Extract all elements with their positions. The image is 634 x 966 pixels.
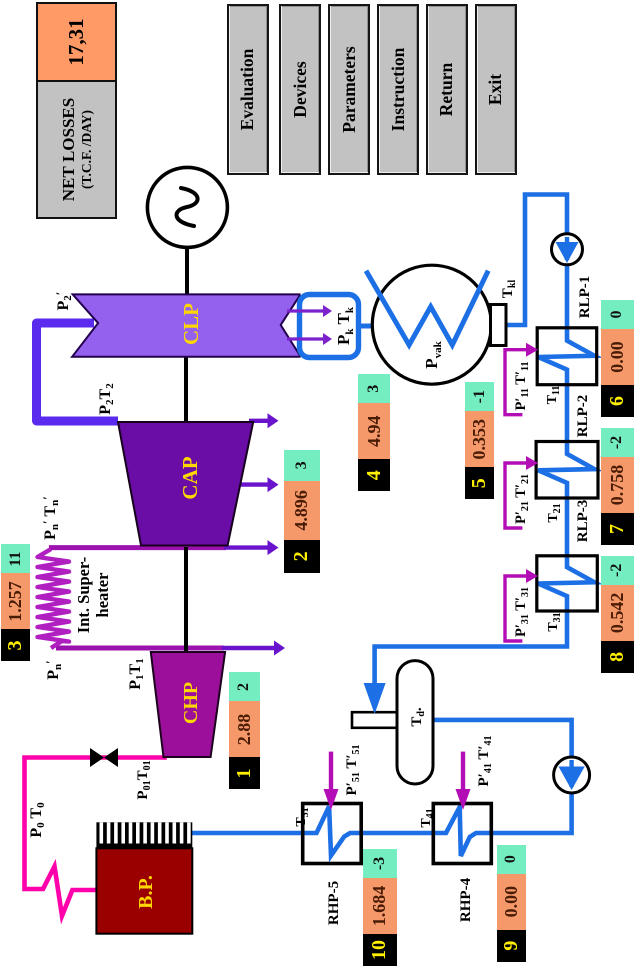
svg-text:P2′: P2′: [53, 292, 74, 311]
heater RLP-2: [536, 442, 598, 499]
svg-text:P2T2: P2T2: [97, 383, 116, 415]
svg-text:P′21 T′21: P′21 T′21: [513, 474, 531, 524]
svg-text:CLP: CLP: [179, 303, 203, 345]
turbine CLP (double-flow): [72, 294, 300, 356]
svg-text:RLP-1: RLP-1: [577, 276, 593, 319]
svg-text:Pn′: Pn′: [43, 660, 64, 680]
svg-text:P′11 T′11: P′11 T′11: [513, 362, 531, 411]
svg-text:Int. Super-: Int. Super-: [74, 557, 93, 633]
boiler B.P.: [96, 848, 192, 933]
svg-text:heater: heater: [93, 573, 112, 618]
extraction arrow 4 below CHP exit (reheat line): [222, 646, 276, 650]
heater RLP-1: [537, 328, 597, 385]
svg-text:T31: T31: [546, 612, 563, 631]
exhaust arrow left: [287, 337, 325, 340]
svg-text:P0 T0: P0 T0: [28, 802, 47, 838]
heater RHP-5: [303, 804, 362, 864]
big blue arrowhead into deaerator: [364, 683, 386, 714]
svg-text:T21: T21: [546, 503, 563, 522]
value bars: [229, 673, 260, 790]
shaft CLP-generator: [185, 247, 189, 295]
svg-text:RLP-3: RLP-3: [575, 500, 591, 543]
svg-text:P′41 T′41: P′41 T′41: [476, 735, 494, 786]
extraction arrow 2 from CAP middle: [237, 482, 270, 486]
deaerator inlet stub: [352, 712, 398, 728]
valve (stop valve on live steam line): [90, 748, 118, 767]
wire: CLP exhaust bracket to condenser (blue): [356, 324, 374, 329]
svg-text:RLP-2: RLP-2: [575, 395, 591, 438]
deaerator tank Td: [397, 661, 433, 784]
extraction bracket into RLP-1: [505, 350, 528, 415]
svg-text:RHP-5: RHP-5: [326, 881, 342, 925]
net losses panel: [36, 2, 117, 219]
generator G: [147, 167, 227, 247]
wire: reheat pipe Int. Superheater to CAP (magenta): [49, 545, 226, 550]
condenser outlet box: [491, 305, 507, 346]
svg-text:T51: T51: [294, 807, 311, 826]
Int. Superheater coil: [38, 549, 70, 648]
svg-text:P′51 T′51: P′51 T′51: [344, 744, 362, 795]
heater RHP-4: [433, 804, 491, 864]
shaft CHP-CAP: [184, 547, 188, 652]
heater RLP-3: [537, 556, 598, 611]
svg-text:P01T01: P01T01: [135, 760, 153, 799]
condenser P_vak: [372, 265, 491, 384]
boiler grate comb: [96, 822, 192, 848]
svg-text:T11: T11: [545, 386, 562, 405]
svg-text:RHP-4: RHP-4: [458, 877, 474, 922]
svg-text:T41: T41: [419, 808, 436, 827]
extraction arrow 1 from CAP exit: [249, 419, 270, 423]
shaft CAP-CLP: [184, 356, 188, 421]
pump (condensate): [552, 234, 583, 265]
wire: main feedwater line B.P. - RHP-5 - RHP-4 - pump - deaerator (blue): [190, 720, 572, 856]
turbine CAP: [118, 422, 253, 546]
svg-text:P′31 T′31: P′31 T′31: [513, 587, 531, 637]
svg-text:CHP: CHP: [180, 682, 202, 724]
extraction bracket into RLP-2: [505, 463, 528, 528]
turbine CHP: [151, 652, 225, 757]
svg-text:P1T1: P1T1: [127, 658, 146, 689]
exhaust arrow right: [287, 309, 325, 312]
wire: live steam / feed loop to boiler B.P. (pink): [25, 758, 167, 916]
menu buttons: [227, 4, 270, 175]
wire: reheat pipe CHP to Int. Superheater (magenta): [56, 646, 224, 651]
wire: crossover pipe CAP exhaust to CLP inlet (violet): [37, 323, 119, 421]
extraction bracket into RLP-3: [505, 576, 528, 641]
svg-text:Pn′ Tn′: Pn′ Tn′: [40, 496, 61, 540]
extraction arrow into RHP-5: [329, 752, 333, 794]
svg-text:Tkl: Tkl: [500, 280, 518, 299]
svg-text:Td.: Td.: [409, 707, 427, 727]
extraction arrow 3 below CAP inlet (reheat line): [224, 545, 270, 549]
extraction arrow into RHP-4: [461, 752, 465, 794]
svg-text:B.P.: B.P.: [135, 875, 157, 909]
pump (feedwater): [554, 757, 590, 793]
wire: condensate line condenser - pump - RLP-1 - RLP-2 - RLP-3 - deaerator (blue): [375, 195, 595, 686]
node Pk Tk exhaust bracket: [300, 295, 359, 358]
svg-text:CAP: CAP: [178, 456, 202, 499]
